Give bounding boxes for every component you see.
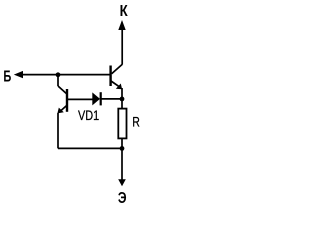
transistor VT2 emitter arrowhead [116,84,122,90]
svg-text:R: R [132,114,140,129]
node B terminal arrow [14,71,23,78]
resistor R body [118,109,126,139]
svg-text:VD1: VD1 [78,108,99,123]
transistor VT1 emitter arrowhead [57,108,63,114]
junction dot bottom rail [120,146,125,151]
wire emitter to E terminal [121,148,123,180]
diode VD1 triangle [92,92,100,105]
wire collector diagonal VT2 [112,64,123,73]
wire VT1 collector vertical [57,75,59,86]
wire bottom rail [58,147,122,149]
transistor VT2 base bar [109,66,111,87]
transistor VT1 emitter diagonal [60,105,67,112]
wire base rail B to VT2 [22,74,110,76]
node E terminal arrow [118,179,126,186]
svg-text:К: К [120,3,129,20]
node K terminal arrow [118,20,125,30]
transistor VT1 base bar [66,89,68,112]
wire collector vertical to K [121,29,123,65]
diode VD1 cathode bar [100,92,102,105]
wire node to resistor [121,99,123,109]
transistor VT2 emitter diagonal [111,81,121,88]
svg-text:Б: Б [3,69,11,86]
wire VT2 emitter to node [121,88,123,99]
wire diode cathode to node [101,98,122,100]
svg-text:Э: Э [118,190,127,207]
wire resistor to bottom rail [121,138,123,148]
wire VT1 collector diagonal [58,86,67,94]
junction dot base rail / VT1 collector [56,72,61,77]
wire VT1 base to diode [68,98,93,100]
junction dot emitter node [120,97,125,102]
wire VT1 emitter vertical [57,113,59,148]
